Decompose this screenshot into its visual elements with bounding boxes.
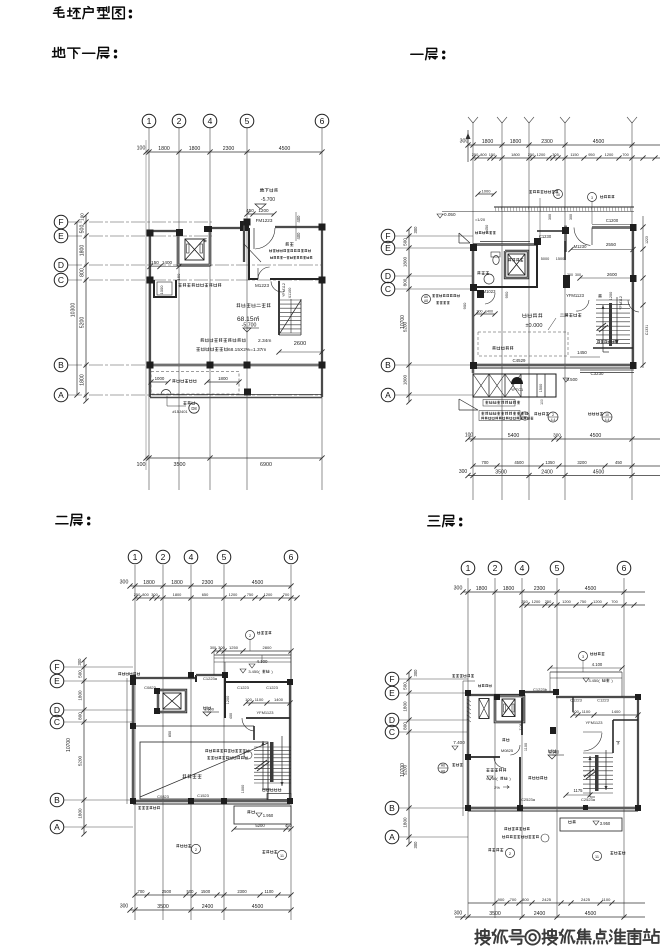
- svg-text:1.950: 1.950: [263, 813, 274, 818]
- svg-text:1.600: 1.600: [204, 707, 215, 712]
- svg-text:1100: 1100: [255, 697, 264, 702]
- svg-text:B: B: [389, 803, 395, 813]
- svg-text:400: 400: [296, 215, 301, 223]
- svg-text:D: D: [58, 260, 64, 270]
- svg-text:4-4: 4-4: [551, 418, 556, 422]
- svg-text:6: 6: [622, 563, 627, 573]
- svg-text:3: 3: [591, 196, 593, 200]
- svg-text:5200: 5200: [78, 755, 83, 766]
- svg-text:2400: 2400: [534, 911, 546, 917]
- svg-text:4500: 4500: [252, 580, 264, 586]
- svg-text:2300: 2300: [223, 146, 235, 152]
- svg-text:1800: 1800: [189, 146, 201, 152]
- svg-text:700: 700: [138, 889, 146, 894]
- svg-text:3.450(: 3.450(: [588, 678, 600, 683]
- svg-text:4.100: 4.100: [257, 659, 269, 664]
- svg-text:5000: 5000: [541, 257, 549, 261]
- svg-text:1100: 1100: [264, 889, 274, 894]
- svg-text:2500: 2500: [162, 889, 172, 894]
- svg-text:500: 500: [403, 238, 408, 246]
- svg-text:A8: A8: [441, 770, 445, 774]
- svg-text:2450: 2450: [485, 225, 489, 233]
- svg-text:C: C: [385, 284, 391, 294]
- svg-text:300: 300: [459, 469, 468, 475]
- svg-text:X1100: X1100: [288, 288, 292, 299]
- svg-text:5: 5: [222, 552, 227, 562]
- svg-text:300: 300: [553, 433, 561, 438]
- svg-text:6: 6: [320, 116, 325, 126]
- svg-text:200: 200: [477, 310, 483, 314]
- svg-text:300: 300: [569, 214, 573, 220]
- svg-text:1400: 1400: [612, 709, 622, 714]
- svg-text:1175: 1175: [573, 788, 583, 793]
- svg-text:E: E: [389, 688, 395, 698]
- svg-text:2600: 2600: [607, 272, 618, 277]
- svg-text:500: 500: [78, 670, 83, 678]
- svg-text:150: 150: [176, 273, 181, 280]
- svg-text:450: 450: [285, 823, 293, 828]
- svg-text:1800: 1800: [78, 808, 83, 819]
- svg-text:2: 2: [493, 563, 498, 573]
- svg-text:1100: 1100: [602, 897, 611, 902]
- svg-text:800: 800: [80, 268, 86, 277]
- svg-text:4500: 4500: [590, 433, 602, 439]
- svg-text:C: C: [58, 275, 64, 285]
- svg-text:C: C: [389, 727, 395, 737]
- svg-text:1450: 1450: [577, 350, 587, 355]
- svg-text:500: 500: [80, 225, 86, 234]
- svg-text:3200: 3200: [577, 460, 587, 465]
- svg-text:±0.000: ±0.000: [525, 323, 542, 329]
- svg-text:250: 250: [545, 599, 552, 604]
- svg-text:1200: 1200: [532, 599, 541, 604]
- svg-text:10: 10: [605, 413, 609, 417]
- svg-text:6.900: 6.900: [549, 750, 560, 755]
- svg-text:C4529: C4529: [513, 358, 526, 363]
- svg-text:300: 300: [151, 592, 158, 597]
- svg-text:1800: 1800: [511, 152, 520, 157]
- svg-text:B: B: [385, 360, 391, 370]
- svg-text:500: 500: [403, 682, 408, 690]
- svg-text:950: 950: [588, 152, 595, 157]
- svg-text:C1223: C1223: [570, 698, 583, 703]
- svg-text:2: 2: [177, 116, 182, 126]
- svg-text:1000: 1000: [159, 285, 164, 295]
- svg-text:300: 300: [120, 580, 129, 586]
- svg-text:3: 3: [582, 655, 584, 659]
- svg-text:1200: 1200: [226, 696, 230, 704]
- svg-text:900: 900: [462, 302, 467, 309]
- svg-text:1800: 1800: [78, 690, 83, 701]
- svg-text:1150: 1150: [570, 152, 579, 157]
- svg-text:2600: 2600: [294, 341, 306, 347]
- svg-text:1200: 1200: [609, 292, 613, 300]
- svg-text:800: 800: [522, 897, 529, 902]
- svg-text:1500: 1500: [539, 384, 543, 392]
- svg-text:4.100: 4.100: [592, 662, 603, 667]
- svg-text:1800: 1800: [403, 256, 408, 267]
- svg-text:2400: 2400: [202, 904, 214, 910]
- svg-text:6900: 6900: [260, 462, 272, 468]
- svg-text:100: 100: [137, 146, 146, 152]
- svg-text:2300: 2300: [534, 586, 546, 592]
- svg-text:=1/20: =1/20: [475, 217, 486, 222]
- svg-text:4500: 4500: [279, 146, 291, 152]
- svg-text:100: 100: [465, 433, 474, 439]
- svg-text:150: 150: [489, 152, 496, 157]
- svg-text:300: 300: [454, 586, 463, 592]
- svg-text:2300: 2300: [237, 889, 247, 894]
- svg-text:650: 650: [202, 592, 209, 597]
- svg-text:1100: 1100: [582, 709, 591, 714]
- svg-text:1400: 1400: [162, 260, 173, 265]
- svg-text:YFTC1: YFTC1: [511, 387, 523, 392]
- svg-text:A: A: [54, 822, 60, 832]
- svg-text:P04: P04: [523, 415, 528, 419]
- svg-text:1800: 1800: [476, 586, 488, 592]
- svg-text:E: E: [385, 243, 391, 253]
- svg-text:1800: 1800: [218, 376, 228, 381]
- svg-text:F: F: [54, 662, 59, 672]
- svg-text:10700: 10700: [400, 763, 406, 777]
- svg-text:YFM1123: YFM1123: [566, 293, 585, 298]
- svg-text:300: 300: [210, 646, 216, 650]
- svg-text:5: 5: [555, 563, 560, 573]
- svg-text:1800: 1800: [158, 146, 170, 152]
- svg-text:E: E: [54, 676, 60, 686]
- svg-text:300: 300: [460, 139, 469, 145]
- svg-text:750: 750: [247, 592, 254, 597]
- svg-text:C0823: C0823: [157, 794, 170, 799]
- svg-text:5200: 5200: [80, 317, 86, 329]
- svg-text:C1331: C1331: [645, 325, 649, 335]
- svg-text:2550: 2550: [606, 242, 617, 247]
- svg-text:10700: 10700: [400, 315, 406, 329]
- svg-text:FM1223: FM1223: [256, 218, 273, 223]
- svg-text:A6: A6: [441, 764, 445, 768]
- svg-text:100: 100: [80, 213, 85, 221]
- svg-text:11: 11: [280, 854, 284, 858]
- svg-text:C2523a: C2523a: [521, 797, 536, 802]
- svg-text:E: E: [58, 231, 64, 241]
- svg-text:100: 100: [245, 697, 252, 702]
- svg-text:4: 4: [189, 552, 194, 562]
- svg-text:1200: 1200: [229, 592, 238, 597]
- svg-text:800: 800: [403, 722, 408, 730]
- svg-text:YFM112: YFM112: [282, 283, 286, 297]
- svg-text:3.450(: 3.450(: [248, 669, 260, 674]
- svg-text:D: D: [389, 715, 395, 725]
- svg-text:3.950: 3.950: [600, 821, 611, 826]
- svg-text:2: 2: [552, 413, 554, 417]
- svg-text:5: 5: [245, 116, 250, 126]
- svg-text:1000: 1000: [241, 785, 245, 793]
- svg-text:1800: 1800: [403, 701, 408, 712]
- svg-text:1200: 1200: [537, 152, 546, 157]
- svg-text:300: 300: [454, 911, 463, 917]
- svg-text:F: F: [389, 674, 394, 684]
- svg-text:1100: 1100: [524, 743, 528, 751]
- svg-text:D: D: [54, 705, 60, 715]
- svg-text:C: C: [54, 717, 60, 727]
- svg-text:-5.700: -5.700: [242, 323, 257, 329]
- svg-text:A: A: [385, 390, 391, 400]
- svg-text:300: 300: [77, 658, 82, 666]
- svg-text:1350: 1350: [545, 460, 555, 465]
- svg-text:C2523a: C2523a: [581, 797, 596, 802]
- svg-text:C1223: C1223: [237, 685, 250, 690]
- svg-text:M0825: M0825: [501, 748, 514, 753]
- svg-text:4500: 4500: [593, 139, 605, 145]
- svg-text:2400: 2400: [541, 469, 553, 475]
- svg-text:100: 100: [540, 399, 544, 405]
- svg-text:1800: 1800: [173, 592, 182, 597]
- svg-text:1: 1: [147, 116, 152, 126]
- svg-text:750: 750: [580, 599, 587, 604]
- svg-text:4: 4: [520, 563, 525, 573]
- svg-text:4500: 4500: [585, 586, 597, 592]
- svg-text:2%: 2%: [494, 785, 500, 790]
- svg-text:A: A: [58, 390, 64, 400]
- svg-text:M1230: M1230: [574, 244, 587, 249]
- svg-text:F: F: [58, 217, 63, 227]
- svg-text:11: 11: [595, 855, 599, 859]
- svg-text:250: 250: [134, 592, 141, 597]
- svg-text:400: 400: [229, 713, 233, 719]
- svg-text:1: 1: [466, 563, 471, 573]
- svg-text:1223: 1223: [645, 236, 649, 244]
- svg-text:1800: 1800: [403, 374, 408, 385]
- svg-text:305: 305: [552, 152, 559, 157]
- svg-text:500: 500: [187, 889, 195, 894]
- svg-text:6: 6: [289, 552, 294, 562]
- svg-text:800: 800: [480, 152, 487, 157]
- svg-text:YFM1123: YFM1123: [256, 710, 274, 715]
- svg-text:1400: 1400: [485, 310, 493, 314]
- svg-text:1800: 1800: [482, 139, 494, 145]
- svg-text:D: D: [385, 271, 391, 281]
- svg-text:1200: 1200: [264, 592, 273, 597]
- svg-text:700: 700: [482, 460, 490, 465]
- svg-text:1500: 1500: [201, 889, 211, 894]
- svg-text:10300: 10300: [71, 303, 77, 318]
- svg-text:5200: 5200: [255, 823, 265, 828]
- svg-text:10700: 10700: [66, 738, 72, 752]
- svg-text:700: 700: [283, 592, 290, 597]
- svg-text:2300: 2300: [541, 139, 553, 145]
- svg-text:A: A: [389, 832, 395, 842]
- svg-text:-5.700: -5.700: [261, 197, 275, 203]
- svg-text:1200: 1200: [605, 152, 614, 157]
- svg-text:M1023: M1023: [483, 289, 496, 294]
- svg-text:C1223: C1223: [597, 698, 610, 703]
- svg-text:1800: 1800: [80, 374, 86, 386]
- svg-text:4: 4: [208, 116, 213, 126]
- svg-text:2: 2: [161, 552, 166, 562]
- svg-text:450: 450: [615, 460, 623, 465]
- svg-text:900: 900: [498, 897, 505, 902]
- svg-text:5400: 5400: [508, 433, 520, 439]
- svg-text:700: 700: [510, 897, 517, 902]
- svg-text:400: 400: [296, 232, 301, 240]
- svg-text:1200: 1200: [562, 599, 571, 604]
- svg-text:1800: 1800: [143, 580, 155, 586]
- svg-text:2: 2: [249, 634, 251, 638]
- svg-text:800: 800: [142, 592, 149, 597]
- svg-text:2.34m: 2.34m: [258, 338, 271, 344]
- svg-text:C1523: C1523: [197, 793, 210, 798]
- svg-text:1500: 1500: [556, 257, 564, 261]
- svg-text:850: 850: [168, 731, 172, 737]
- svg-text:800: 800: [403, 278, 408, 286]
- svg-text:4500: 4500: [593, 469, 605, 475]
- svg-text:C1200: C1200: [606, 218, 619, 223]
- svg-text:4-4: 4-4: [605, 418, 610, 422]
- svg-text:B: B: [58, 360, 64, 370]
- svg-text:300: 300: [575, 273, 581, 277]
- svg-text:1800: 1800: [510, 139, 522, 145]
- svg-text:300: 300: [413, 669, 418, 677]
- svg-text:C3230: C3230: [591, 371, 604, 376]
- svg-text:1000: 1000: [155, 376, 165, 381]
- svg-text:1000: 1000: [482, 188, 492, 193]
- svg-text:4500: 4500: [585, 911, 597, 917]
- svg-text:250: 250: [521, 599, 528, 604]
- svg-text:YFM112: YFM112: [619, 296, 623, 310]
- svg-text:4500: 4500: [252, 904, 264, 910]
- svg-text:300: 300: [413, 841, 418, 849]
- svg-text:-0.050: -0.050: [442, 212, 455, 217]
- svg-text:700: 700: [611, 599, 618, 604]
- svg-text:68.15X2%=1.37m: 68.15X2%=1.37m: [228, 347, 266, 353]
- svg-text:1800: 1800: [80, 245, 86, 257]
- svg-text:7.400: 7.400: [453, 740, 465, 745]
- svg-text:2800: 2800: [263, 645, 273, 650]
- svg-text:3500: 3500: [157, 904, 169, 910]
- svg-text:950: 950: [504, 291, 509, 298]
- svg-text:450: 450: [246, 208, 254, 213]
- svg-text:1800: 1800: [403, 817, 408, 828]
- svg-text:B: B: [54, 795, 60, 805]
- svg-text:C1223a: C1223a: [203, 676, 218, 681]
- svg-text:C1223: C1223: [266, 685, 279, 690]
- svg-text:200: 200: [567, 273, 573, 277]
- svg-text:3500: 3500: [489, 911, 501, 917]
- svg-text:D8: D8: [191, 406, 197, 411]
- svg-text:300: 300: [120, 904, 129, 910]
- svg-text:300: 300: [413, 226, 418, 234]
- svg-text:YFM1123: YFM1123: [585, 720, 603, 725]
- svg-text:300: 300: [548, 214, 552, 220]
- svg-text:800: 800: [78, 712, 83, 720]
- svg-text:700: 700: [622, 152, 629, 157]
- svg-text:2425: 2425: [542, 897, 552, 902]
- svg-text:300: 300: [218, 645, 225, 650]
- svg-text:1400: 1400: [274, 697, 284, 702]
- svg-text:7.08: 7.08: [519, 724, 523, 731]
- svg-text:1: 1: [133, 552, 138, 562]
- svg-text:4500: 4500: [514, 460, 524, 465]
- svg-text:250: 250: [472, 152, 479, 157]
- svg-text:2425: 2425: [581, 897, 591, 902]
- svg-text:1200: 1200: [593, 599, 602, 604]
- svg-text:F: F: [385, 231, 390, 241]
- svg-text:A8: A8: [424, 299, 428, 303]
- svg-text:10: 10: [556, 193, 560, 197]
- svg-text:3500: 3500: [174, 462, 186, 468]
- svg-text:3500: 3500: [495, 469, 507, 475]
- svg-text:#15J401: #15J401: [172, 409, 188, 414]
- svg-text:250: 250: [528, 152, 535, 157]
- svg-text:2300: 2300: [202, 580, 214, 586]
- svg-text:1800: 1800: [503, 586, 515, 592]
- svg-text:1200: 1200: [258, 208, 269, 213]
- svg-text:C1223b: C1223b: [533, 687, 548, 692]
- svg-text:100: 100: [137, 462, 146, 468]
- svg-text:1250: 1250: [229, 645, 239, 650]
- svg-text:1800: 1800: [171, 580, 183, 586]
- svg-text:M1223: M1223: [255, 283, 269, 288]
